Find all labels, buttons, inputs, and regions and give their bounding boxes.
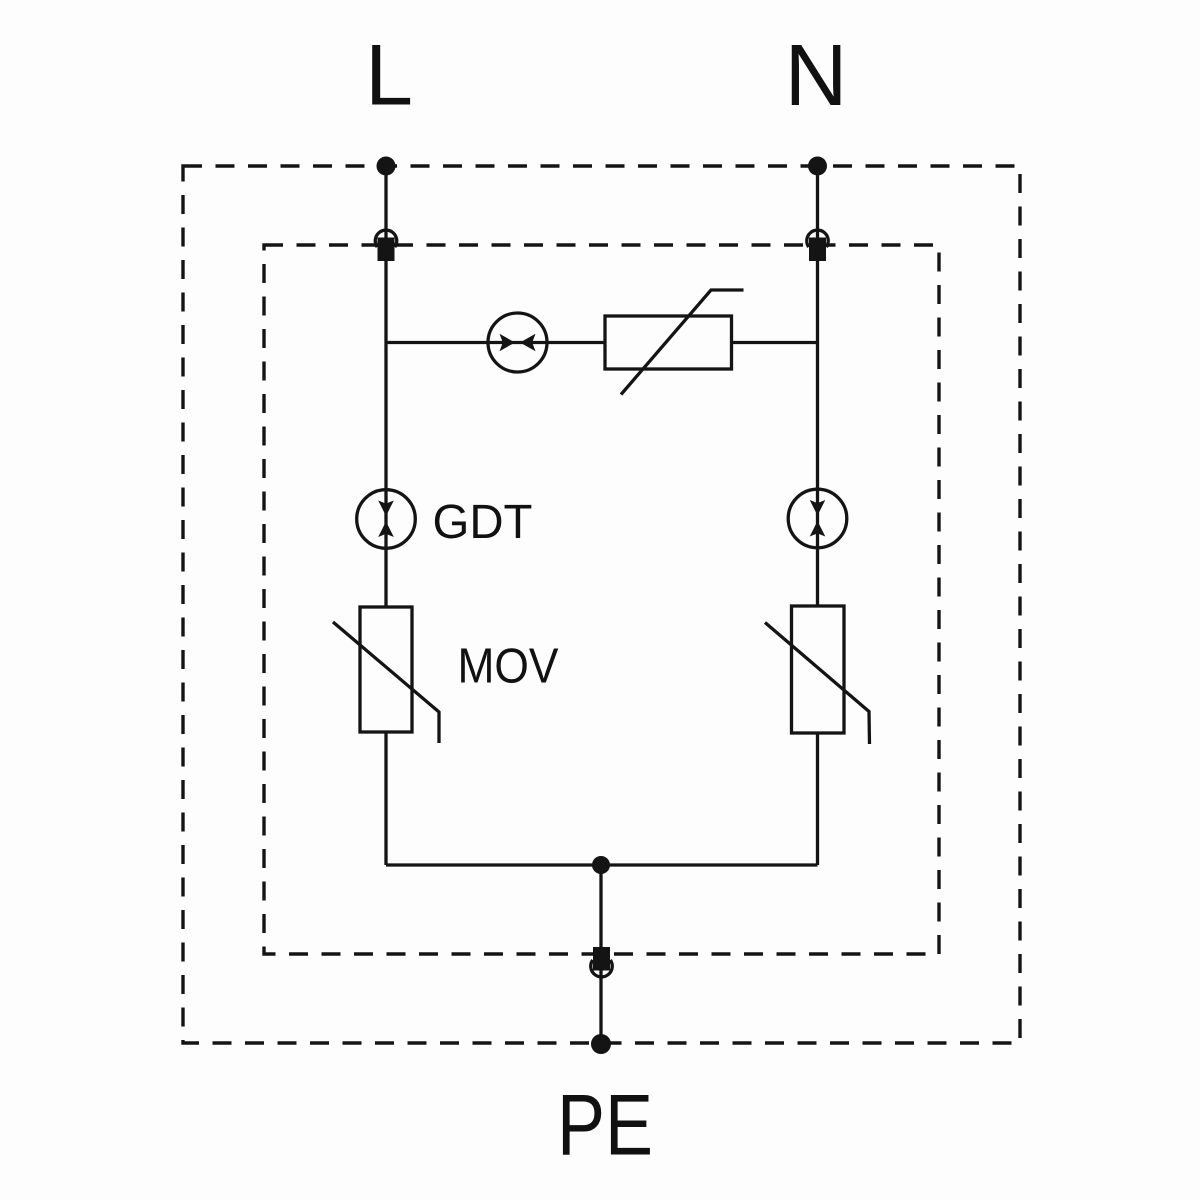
node N terminal dot <box>808 157 827 176</box>
wire top branch left segment <box>386 341 605 344</box>
varistor MOV L <box>333 607 439 743</box>
varistor (N-L branch) <box>605 290 744 395</box>
wire L vertical lower <box>384 732 387 865</box>
wire N vertical upper <box>816 166 819 606</box>
wire bottom bus <box>386 863 818 866</box>
thermal disconnector L (GDT) <box>357 490 416 549</box>
svg-text:PE: PE <box>557 1078 653 1174</box>
svg-text:L: L <box>365 28 413 124</box>
svg-text:N: N <box>785 27 848 124</box>
wire top branch right segment <box>732 341 818 344</box>
svg-text:MOV: MOV <box>458 640 559 694</box>
thermal disconnector N <box>788 489 847 548</box>
junction dot bottom bus <box>592 856 610 874</box>
inner dashed enclosure <box>264 245 939 954</box>
wire PE vertical <box>599 865 602 1044</box>
plug-in terminal N <box>807 230 828 261</box>
outer dashed enclosure <box>183 166 1020 1043</box>
wire N vertical lower <box>816 733 819 865</box>
varistor MOV N <box>765 606 870 744</box>
thermal disconnector (N-L branch) <box>488 313 547 372</box>
svg-text:GDT: GDT <box>433 496 533 549</box>
plug-in terminal L <box>375 230 397 261</box>
wire L vertical upper <box>384 166 387 607</box>
plug-in terminal PE <box>591 947 613 977</box>
node PE terminal dot <box>591 1034 611 1054</box>
node L terminal dot <box>377 157 396 176</box>
